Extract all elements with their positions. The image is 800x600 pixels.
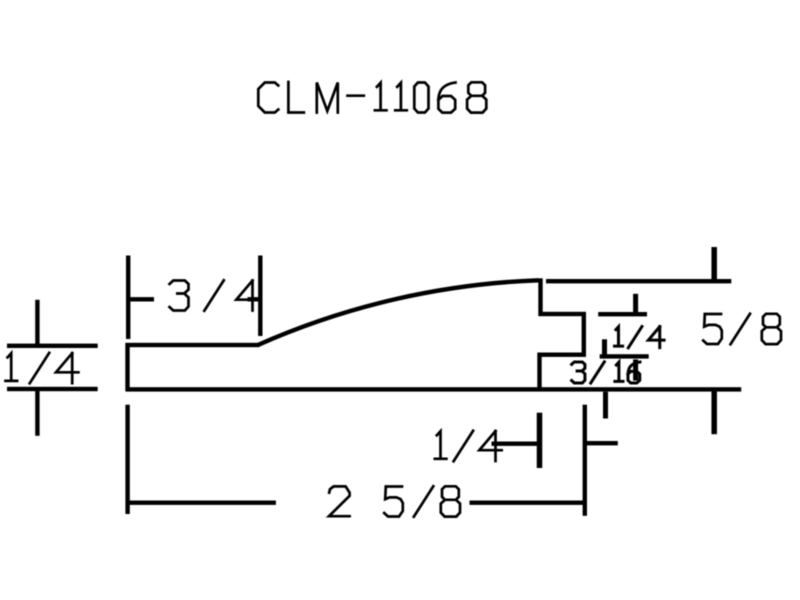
dim 3/4 right extension line [258, 256, 262, 337]
dim small 1/4 dimension line upper segment [633, 294, 638, 315]
dim bottom 1/4 text [435, 431, 502, 461]
profile right upper edge [538, 278, 542, 316]
dim 3/4 dimension line right segment [248, 297, 259, 301]
dim 1/4 left dimension line upper segment [35, 300, 39, 347]
dim small 1/4 text [615, 327, 665, 348]
dim 3/4 dimension line left segment [130, 297, 154, 301]
dim 2 5/8 right extension line [583, 405, 587, 516]
dim small 1/4 top extension line [598, 312, 647, 316]
profile bottom edge with extension to right [126, 387, 742, 391]
dim small 1/4 bottom extension line [600, 354, 649, 358]
dim 2 5/8 dimension line left segment [126, 501, 276, 505]
dim bottom 1/4 dimension line left segment [492, 442, 541, 446]
title text CLM-11068 [258, 82, 486, 113]
dim 3/16 dimension line lower segment [603, 392, 608, 419]
dim 5/8 dimension line upper segment [711, 247, 717, 281]
dim 1/4 left bottom extension line [7, 387, 98, 391]
tongue right edge [582, 312, 586, 357]
dim 3/4 text [170, 280, 259, 310]
dim 5/8 text [703, 314, 781, 344]
dim 2 5/8 left extension line [125, 405, 129, 514]
dim bottom 1/4 left extension tick [537, 413, 543, 468]
profile top edge [126, 343, 260, 347]
dim 3/16 dimension line upper segment [602, 339, 607, 356]
dim 1/4 left dimension line lower segment [35, 389, 39, 436]
profile right lower edge [537, 353, 541, 391]
profile left edge [125, 343, 129, 391]
dim bottom 1/4 dimension line right overshoot [585, 441, 618, 445]
dim 1/4 left top extension line [7, 344, 98, 348]
tongue top edge [539, 312, 586, 316]
dim 5/8 dimension line lower segment [711, 390, 717, 434]
dim 3/4 left extension line [126, 256, 130, 340]
dim small 1/4 dimension line lower segment [633, 359, 638, 380]
dim 3/16 text [572, 362, 640, 383]
dim 2 5/8 dimension line right segment [470, 501, 584, 505]
tongue bottom edge [538, 353, 586, 357]
profile curved top (arc) [259, 280, 539, 344]
dim 1/4 left text [6, 353, 79, 383]
dim 2 5/8 text [329, 486, 460, 516]
dim 5/8 top extension line [546, 279, 731, 283]
